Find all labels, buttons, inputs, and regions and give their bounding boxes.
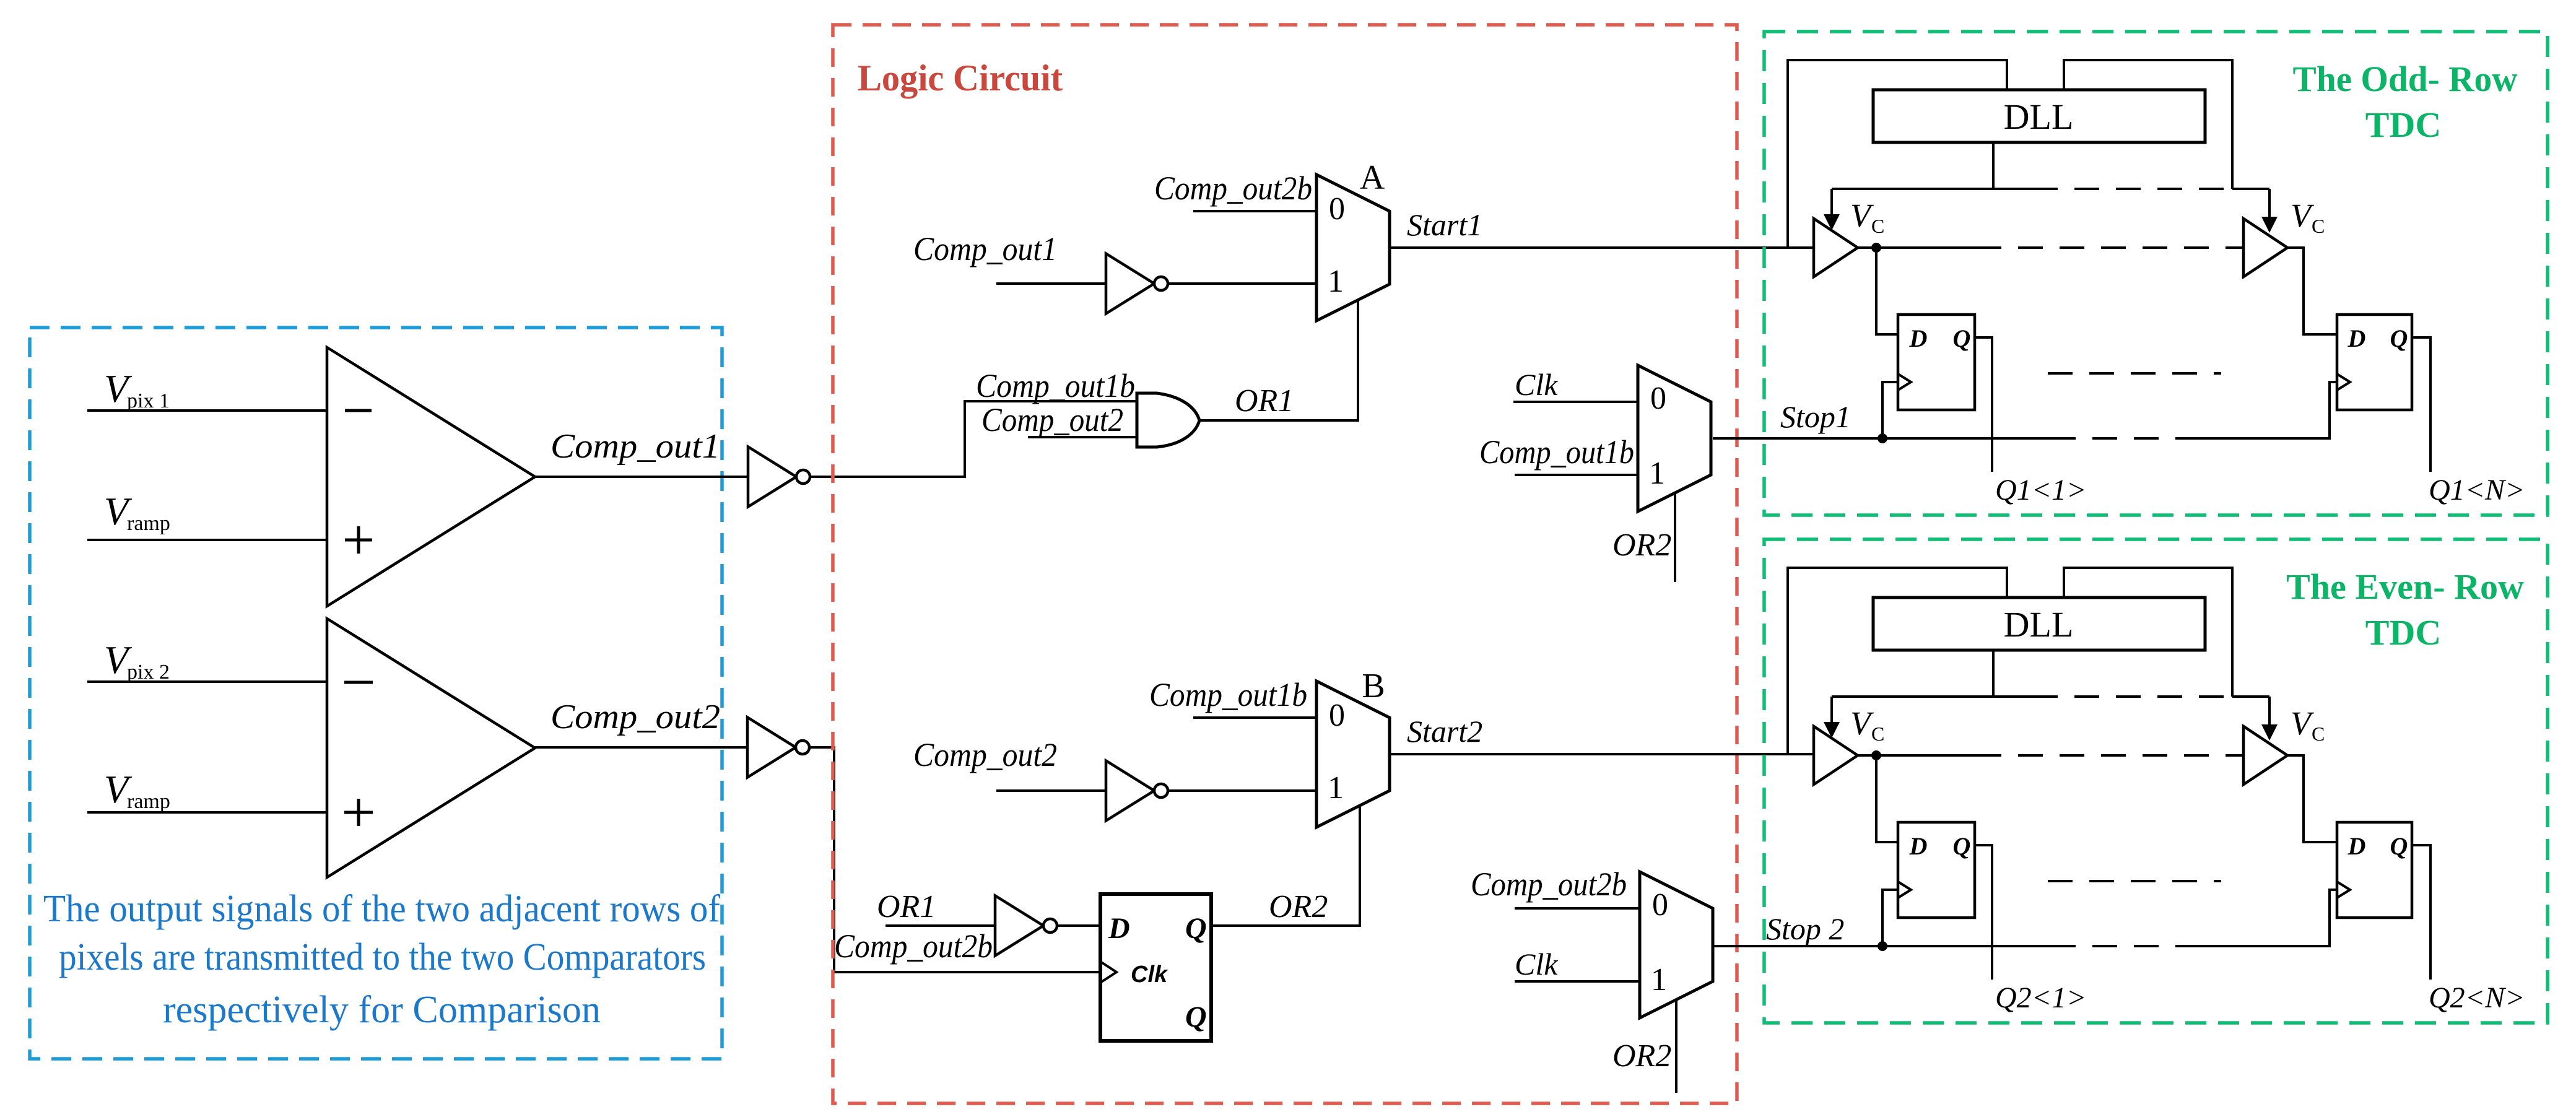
wire B2 to DFF2 D (even): [2286, 755, 2337, 842]
svg-text:0: 0: [1329, 191, 1345, 227]
svg-text:Q: Q: [1953, 832, 1971, 860]
svg-text:OR1: OR1: [877, 889, 936, 924]
svg-text:pixels are transmitted to the: pixels are transmitted to the two Compar…: [59, 936, 706, 978]
wire V_ramp input: [87, 539, 327, 541]
wire B2 to DFF2 D (odd): [2286, 248, 2337, 334]
buffer B1 (even): [1814, 726, 1858, 785]
flip-flop DFF2 (even): [2337, 822, 2412, 918]
svg-text:Logic Circuit: Logic Circuit: [858, 58, 1063, 98]
svg-text:Comp_out2b: Comp_out2b: [1471, 866, 1627, 903]
svg-text:0: 0: [1650, 381, 1666, 416]
wire OR1 output to mux A select: [1199, 300, 1358, 420]
svg-text:D: D: [1909, 324, 1928, 352]
mux C: [1638, 365, 1711, 511]
wire mux D input 1: [1515, 980, 1640, 983]
or-gate OR1: [1137, 393, 1199, 447]
buffer B2 (odd): [2243, 219, 2287, 277]
wire V_pix1 input: [87, 409, 327, 412]
flip-flop DFF1 (odd): [1898, 315, 1975, 410]
wire DLL feedback left (odd): [1788, 60, 2007, 248]
Vc arrow into buffer B2 (even): [2268, 697, 2271, 727]
svg-text:Stop 2: Stop 2: [1766, 911, 1844, 946]
node B1 output junction (odd): [1871, 243, 1881, 253]
wire DLL feedback left (even): [1788, 568, 2007, 755]
svg-text:TDC: TDC: [2365, 105, 2441, 145]
svg-text:C: C: [2312, 723, 2325, 745]
wire mux A input 0: [1193, 210, 1316, 212]
flip-flop DFF1 (even): [1898, 822, 1975, 918]
wire OR2 select (mux C): [1674, 493, 1676, 582]
svg-text:Clk: Clk: [1515, 367, 1558, 402]
svg-text:Stop1: Stop1: [1780, 399, 1851, 434]
svg-text:Comp_out1: Comp_out1: [913, 230, 1057, 267]
odd-row TDC boundary (green dashed): [1764, 32, 2548, 515]
wire DLL Vc tap (odd): [1992, 142, 1995, 189]
wire mux A input 1: [1168, 282, 1316, 285]
wire Comp_out2b to DFF clock: [810, 747, 1100, 972]
svg-text:1: 1: [1328, 264, 1344, 299]
svg-text:Comp_out2: Comp_out2: [981, 401, 1123, 438]
wire stop dashed (even): [2051, 945, 2187, 947]
svg-text:OR2: OR2: [1269, 889, 1328, 924]
wire B1 to DFF1 D (even): [1876, 755, 1898, 842]
svg-text:D: D: [1909, 832, 1928, 860]
wire Comp_out1: [535, 476, 748, 478]
node B1 output junction (even): [1871, 750, 1881, 760]
wire Start2: [1390, 753, 1814, 755]
wire Vc stub to buffer B2 (even): [2232, 695, 2269, 698]
wire Vc rail (even): [1832, 695, 2033, 698]
svg-text:ramp: ramp: [127, 790, 170, 813]
wire Stop1 (odd): [1713, 437, 2051, 440]
svg-text:Comp_out2: Comp_out2: [913, 736, 1057, 773]
svg-text:Start1: Start1: [1407, 207, 1482, 242]
wire Vc stub to buffer B2 (odd): [2232, 188, 2269, 190]
flip-flop FF1 (logic): [1100, 894, 1211, 1041]
wire DLL Vc tap (even): [1992, 650, 1995, 697]
wire stop to DFF2 clock (even): [2187, 890, 2337, 946]
wire stop dashed (odd): [2051, 437, 2187, 440]
Vc arrow into buffer B1 (even): [1830, 697, 1833, 724]
inverter X4: [1106, 761, 1154, 821]
svg-text:Q: Q: [1185, 912, 1207, 945]
svg-text:1: 1: [1651, 962, 1667, 997]
svg-text:D: D: [1108, 912, 1130, 945]
wire inverter X4 input: [996, 789, 1106, 792]
wire DLL feedback right (odd): [2064, 60, 2232, 189]
wire Start1: [1390, 246, 1814, 249]
wire Q1&lt;1&gt; output (odd): [1975, 337, 1992, 472]
U2 plus input mark: [344, 811, 373, 814]
wire middle dashed (even): [2048, 880, 2221, 882]
mux B: [1316, 681, 1390, 827]
svg-text:0: 0: [1652, 887, 1668, 923]
comparator U1: [327, 347, 535, 606]
svg-text:TDC: TDC: [2365, 612, 2441, 653]
wire Vc rail dashed (odd): [2033, 188, 2232, 190]
svg-text:pix 1: pix 1: [127, 389, 170, 412]
wire OR1 input 2: [1028, 436, 1146, 438]
svg-text:C: C: [2312, 215, 2325, 237]
wire B1 output (odd): [1858, 246, 1977, 249]
U1 plus input mark: [345, 539, 372, 542]
mux A: [1316, 175, 1390, 321]
wire B1 output (even): [1858, 754, 1977, 757]
wire OR2 from FF1 Q to mux B select: [1211, 806, 1360, 926]
wire B1 to DFF1 D (odd): [1876, 248, 1898, 334]
svg-text:Comp_out2b: Comp_out2b: [834, 928, 993, 965]
wire delay chain dashed (odd): [1977, 246, 2243, 249]
wire V_pix2 input: [87, 680, 327, 683]
wire D input (logic DFF): [1057, 924, 1100, 927]
inverter X5: [995, 896, 1043, 956]
svg-text:Q: Q: [1953, 324, 1971, 352]
wire middle dashed (odd): [2048, 372, 2221, 375]
svg-text:The Odd- Row: The Odd- Row: [2293, 59, 2518, 99]
svg-text:ramp: ramp: [127, 512, 170, 535]
logic circuit boundary (red dashed): [833, 25, 1737, 1103]
even-row TDC boundary (green dashed): [1764, 539, 2548, 1023]
U2 minus input mark: [344, 681, 373, 684]
svg-text:Q2<1>: Q2<1>: [1995, 981, 2086, 1014]
wire inverter X5 input: [885, 924, 995, 927]
svg-text:Comp_out1b: Comp_out1b: [976, 367, 1135, 404]
svg-text:Q1<N>: Q1<N>: [2429, 474, 2525, 506]
wire Stop2 (even): [1713, 945, 2051, 947]
svg-text:1: 1: [1649, 456, 1665, 491]
DFF1 clock edge marker (even): [1898, 882, 1911, 898]
svg-text:The Even- Row: The Even- Row: [2286, 567, 2524, 607]
svg-text:D: D: [2348, 832, 2366, 860]
wire mux B input 0: [1193, 716, 1316, 719]
svg-text:Clk: Clk: [1131, 962, 1168, 988]
wire Vc rail (odd): [1832, 188, 2033, 190]
wire DFF1 clock riser (even): [1882, 890, 1898, 946]
svg-text:DLL: DLL: [2004, 97, 2074, 137]
svg-text:Clk: Clk: [1515, 947, 1558, 981]
flip-flop DFF2 (odd): [2337, 315, 2412, 410]
wire Vc rail dashed (even): [2033, 695, 2232, 698]
wire Comp_out2: [535, 746, 747, 749]
inverter X1: [748, 447, 796, 507]
wire OR2 select (mux D): [1675, 999, 1677, 1093]
svg-text:C: C: [1871, 215, 1884, 237]
wire Q2&lt;1&gt; output (even): [1975, 845, 1992, 980]
svg-text:C: C: [1871, 723, 1884, 745]
svg-text:Comp_out1b: Comp_out1b: [1149, 676, 1307, 713]
svg-text:Comp_out1b: Comp_out1b: [1479, 433, 1634, 471]
wire delay chain dashed (even): [1977, 754, 2243, 757]
Vc arrow into buffer B1 (odd): [1830, 189, 1833, 217]
mux D: [1640, 872, 1713, 1018]
wire mux C input 0: [1513, 401, 1638, 403]
wire Q2&lt;N&gt; output (even): [2412, 845, 2430, 980]
DFF2 clock edge marker (even): [2337, 882, 2350, 898]
buffer B2 (even): [2243, 726, 2287, 785]
DFF1 clock edge marker (odd): [1898, 374, 1911, 390]
svg-text:Q1<1>: Q1<1>: [1995, 474, 2086, 506]
svg-text:Comp_out2: Comp_out2: [550, 698, 720, 736]
svg-text:Q2<N>: Q2<N>: [2429, 981, 2525, 1014]
Vc arrow into buffer B2 (odd): [2268, 189, 2271, 219]
DFF2 clock edge marker (odd): [2337, 374, 2350, 390]
inverter X3: [1106, 254, 1154, 314]
wire DFF1 clock riser (odd): [1882, 382, 1898, 438]
svg-text:Comp_out1: Comp_out1: [550, 427, 720, 466]
wire DLL feedback right (even): [2064, 568, 2232, 697]
svg-text:Start2: Start2: [1407, 714, 1482, 749]
svg-text:Comp_out2b: Comp_out2b: [1154, 170, 1312, 207]
wire mux B input 1: [1168, 789, 1316, 792]
wire mux D input 0: [1515, 907, 1640, 910]
FF1 clock edge marker: [1100, 962, 1116, 983]
svg-text:pix 2: pix 2: [127, 661, 170, 684]
svg-text:The output signals of the two: The output signals of the two adjacent r…: [43, 888, 720, 930]
svg-text:0: 0: [1329, 698, 1345, 733]
svg-text:D: D: [2348, 324, 2366, 352]
wire Q1&lt;N&gt; output (odd): [2412, 337, 2430, 472]
U1 minus input mark: [345, 409, 372, 412]
DLL block (odd): [1873, 90, 2205, 142]
svg-text:B: B: [1362, 667, 1385, 705]
svg-text:DLL: DLL: [2004, 604, 2074, 645]
DLL block (even): [1873, 598, 2205, 650]
buffer B1 (odd): [1814, 219, 1858, 277]
wire mux C input 1: [1515, 474, 1638, 476]
svg-text:Q: Q: [2390, 324, 2408, 352]
comparator block boundary (blue dashed): [30, 328, 722, 1059]
svg-text:1: 1: [1328, 770, 1344, 806]
svg-text:respectively for Comparison: respectively for Comparison: [163, 989, 601, 1031]
wire inverter X3 input: [996, 282, 1106, 285]
wire Comp_out1b to OR1 input: [811, 401, 1146, 477]
svg-text:OR2: OR2: [1612, 1038, 1671, 1074]
comparator U2: [327, 619, 535, 877]
wire stop to DFF2 clock (odd): [2187, 382, 2337, 438]
svg-text:Q: Q: [2390, 832, 2408, 860]
wire V_ramp2 input: [87, 811, 327, 814]
node stop junction (odd): [1878, 433, 1887, 443]
inverter X2: [747, 718, 796, 778]
svg-text:Q: Q: [1185, 1001, 1207, 1033]
node stop junction (even): [1878, 941, 1887, 951]
svg-text:OR1: OR1: [1235, 383, 1294, 419]
svg-text:A: A: [1360, 159, 1385, 197]
svg-text:OR2: OR2: [1612, 528, 1671, 563]
